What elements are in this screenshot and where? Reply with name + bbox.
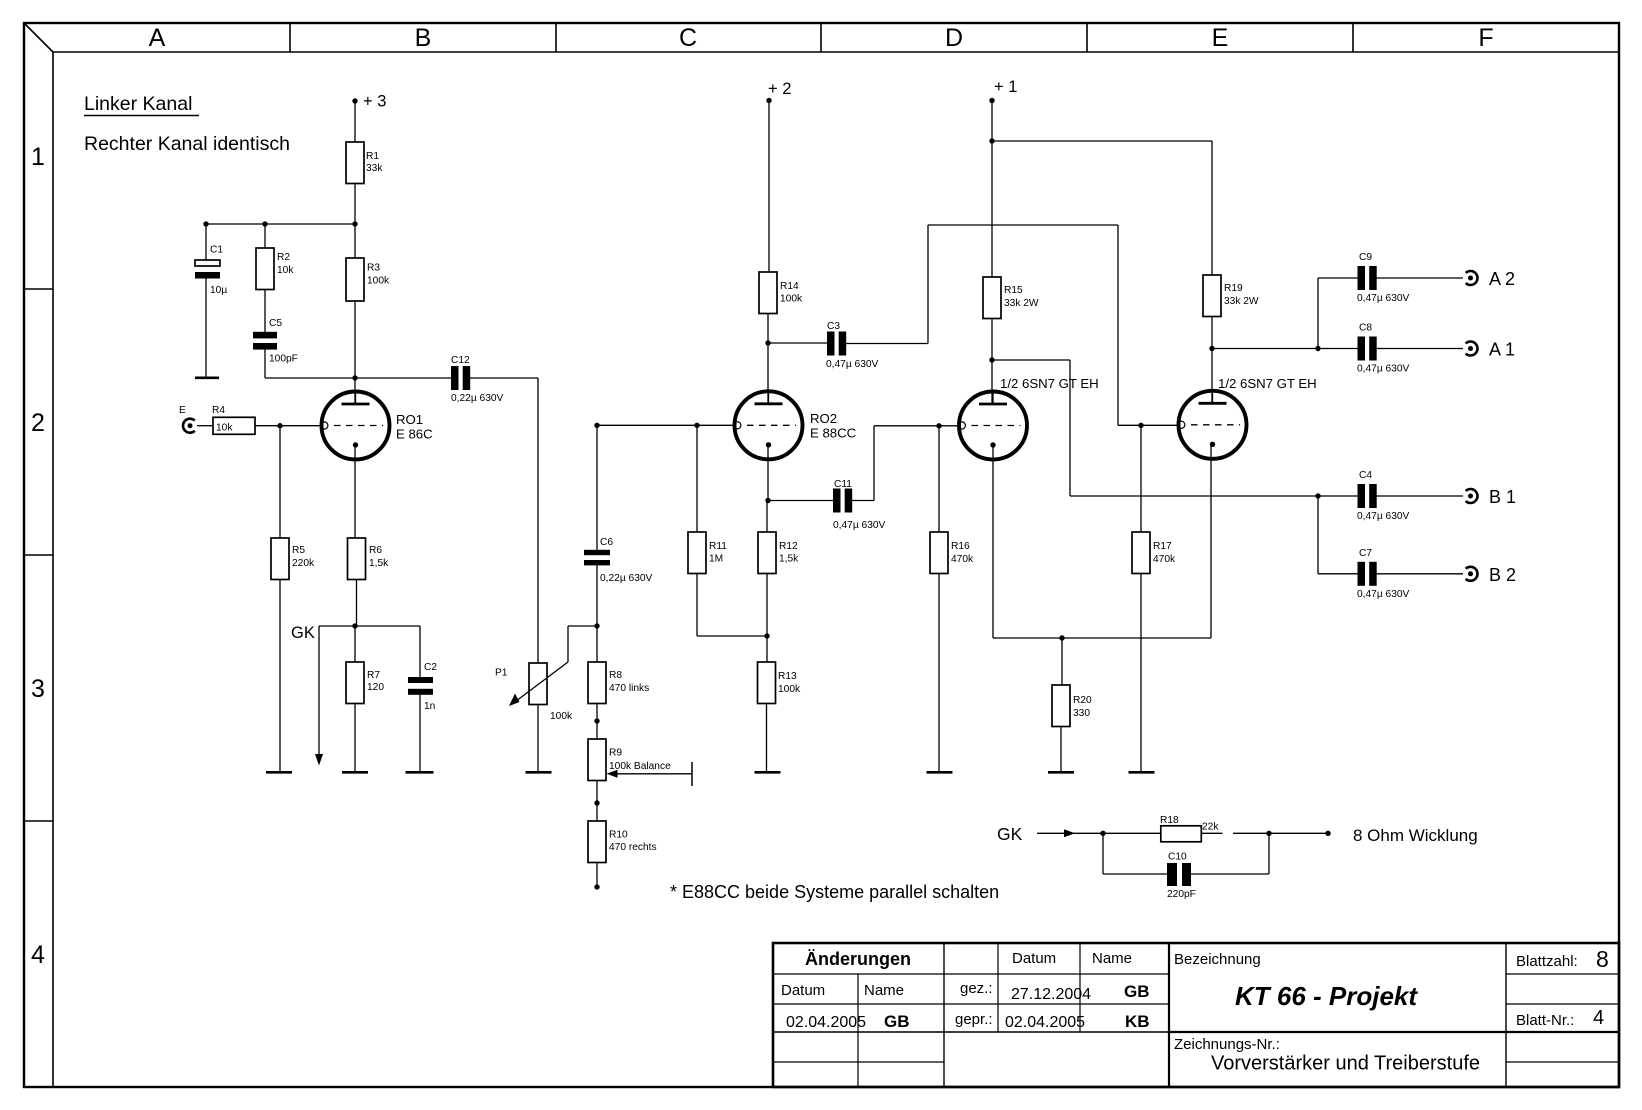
svg-text:100k: 100k bbox=[780, 294, 803, 305]
svg-text:RO2: RO2 bbox=[810, 411, 837, 426]
wire GK node right to C2 bbox=[355, 625, 420, 627]
svg-text:E: E bbox=[1212, 24, 1229, 52]
svg-text:4: 4 bbox=[31, 941, 45, 969]
svg-text:100k: 100k bbox=[367, 276, 390, 287]
wire R7 to ground bbox=[354, 704, 356, 772]
svg-text:33k: 33k bbox=[366, 163, 383, 174]
svg-text:C2: C2 bbox=[424, 662, 437, 673]
svg-text:R16: R16 bbox=[951, 541, 970, 552]
triode V2 half 6SN7 bbox=[1179, 391, 1247, 459]
resistor R6 bbox=[348, 538, 366, 580]
node tube2 anode bbox=[1209, 346, 1214, 351]
title block grid bbox=[773, 943, 1619, 1087]
ground R17 bbox=[1129, 771, 1155, 774]
wire R6 to GK node bbox=[356, 580, 358, 627]
svg-text:33k 2W: 33k 2W bbox=[1224, 296, 1259, 307]
svg-text:Name: Name bbox=[1092, 950, 1132, 967]
svg-text:C12: C12 bbox=[451, 355, 470, 366]
wire C10 right leg bbox=[1268, 833, 1270, 874]
svg-text:10k: 10k bbox=[277, 265, 294, 276]
svg-text:0,47µ 630V: 0,47µ 630V bbox=[1357, 511, 1410, 522]
wire R18 right b bbox=[1233, 832, 1269, 834]
row divider 1 bbox=[24, 288, 53, 290]
ground C2 bbox=[406, 771, 434, 774]
svg-text:R19: R19 bbox=[1224, 283, 1243, 294]
wire R11 top lead bbox=[696, 425, 698, 532]
svg-text:22k: 22k bbox=[1202, 822, 1219, 833]
connector A1 bbox=[1466, 341, 1478, 355]
svg-text:E: E bbox=[179, 405, 186, 416]
ground C1 bbox=[195, 376, 219, 379]
svg-text:8 Ohm Wicklung: 8 Ohm Wicklung bbox=[1353, 826, 1478, 845]
wire to C4 bbox=[1318, 495, 1358, 497]
svg-text:Zeichnungs-Nr.:: Zeichnungs-Nr.: bbox=[1174, 1036, 1280, 1053]
wire down to R19 bbox=[1211, 141, 1213, 275]
capacitor C1 bbox=[195, 260, 220, 266]
capacitor C7 bbox=[1358, 562, 1366, 586]
wire GK node left bbox=[319, 625, 355, 627]
resistor R5 bbox=[271, 538, 289, 580]
svg-text:8: 8 bbox=[1596, 946, 1609, 972]
svg-text:A 1: A 1 bbox=[1489, 340, 1515, 360]
wire anode to C3 bbox=[768, 342, 827, 344]
wire C9 to A2 bbox=[1373, 277, 1463, 279]
svg-text:Datum: Datum bbox=[1012, 950, 1056, 967]
wire V2 cathode down bbox=[1210, 445, 1212, 638]
wire to C7 bbox=[1318, 573, 1358, 575]
wire RO2 cathode lead bbox=[767, 445, 769, 500]
wire E to R4 bbox=[197, 425, 213, 427]
svg-text:C6: C6 bbox=[600, 537, 613, 548]
svg-text:R18: R18 bbox=[1160, 815, 1179, 826]
resistor R1 bbox=[346, 142, 364, 184]
wire B riser down bbox=[1069, 360, 1071, 496]
capacitor C12 bbox=[451, 366, 459, 390]
column divider 4 bbox=[1086, 23, 1088, 52]
node wiper junction bbox=[594, 623, 599, 628]
GK arrow down bbox=[318, 626, 320, 754]
wire R3 to anode net bbox=[354, 301, 356, 378]
wire R8 to R9 bbox=[596, 704, 598, 740]
wire C11 left bbox=[768, 500, 833, 502]
wire down to tube2 grid bbox=[1117, 225, 1119, 425]
wire cathode to R12 bbox=[766, 501, 768, 533]
capacitor C10 bbox=[1167, 863, 1177, 886]
svg-text:R4: R4 bbox=[212, 405, 225, 416]
wire C12 to corner bbox=[467, 377, 538, 379]
svg-text:1n: 1n bbox=[424, 701, 435, 712]
wire R17 top lead bbox=[1140, 425, 1142, 532]
wire C11 riser bbox=[873, 426, 875, 501]
wire C8 to A1 bbox=[1373, 348, 1463, 350]
wire R2 top lead bbox=[264, 224, 266, 248]
svg-text:C1: C1 bbox=[210, 245, 223, 256]
svg-text:R15: R15 bbox=[1004, 285, 1023, 296]
wire C10 right run bbox=[1191, 873, 1269, 875]
svg-text:1M: 1M bbox=[709, 554, 723, 565]
svg-text:Vorverstärker und Treiberstufe: Vorverstärker und Treiberstufe bbox=[1211, 1053, 1480, 1075]
node R18/C10 right bbox=[1266, 831, 1271, 836]
wire B riser down bbox=[1317, 496, 1319, 574]
svg-text:27.12.2004: 27.12.2004 bbox=[1011, 986, 1091, 1003]
border frame corner diagonal bbox=[24, 23, 53, 52]
svg-text:4: 4 bbox=[1593, 1007, 1604, 1029]
wire C6 top lead bbox=[596, 425, 598, 550]
node A junction bbox=[1315, 346, 1320, 351]
svg-text:RO1: RO1 bbox=[396, 412, 423, 427]
wire C7 to B2 bbox=[1373, 573, 1463, 575]
wire RO1 anode into tube bbox=[354, 378, 356, 404]
svg-text:R1: R1 bbox=[366, 151, 379, 162]
potentiometer P1 body bbox=[529, 663, 547, 705]
svg-text:C5: C5 bbox=[269, 318, 282, 329]
potentiometer P1 wiper arrow bbox=[512, 662, 569, 705]
node R16 junction bbox=[936, 423, 941, 428]
wire C1 top lead bbox=[205, 224, 207, 260]
svg-text:R20: R20 bbox=[1073, 695, 1092, 706]
svg-text:D: D bbox=[945, 24, 963, 52]
column divider 3 bbox=[820, 23, 822, 52]
svg-text:470k: 470k bbox=[951, 554, 974, 565]
svg-text:A: A bbox=[149, 24, 166, 52]
capacitor C11 bbox=[833, 489, 841, 513]
svg-text:33k 2W: 33k 2W bbox=[1004, 298, 1039, 309]
node GK/R18 left bbox=[1100, 831, 1105, 836]
resistor R7 bbox=[346, 662, 364, 704]
wire R9 to R10 bbox=[596, 781, 598, 822]
capacitor C3 bbox=[827, 332, 835, 356]
capacitor C8 bbox=[1358, 337, 1366, 361]
wire R12 to node bbox=[766, 574, 768, 663]
terminal node 8 Ohm bbox=[1325, 831, 1330, 836]
capacitor C2 bbox=[408, 677, 433, 683]
node R17 junction bbox=[1138, 423, 1143, 428]
wire to C9 bbox=[1318, 277, 1358, 279]
svg-text:Blatt-Nr.:: Blatt-Nr.: bbox=[1516, 1012, 1574, 1029]
triode RO1 bbox=[322, 392, 390, 460]
capacitor C6 bbox=[584, 550, 610, 555]
wire R14 to anode node bbox=[767, 314, 769, 344]
wire RO1 cathode lead bbox=[354, 445, 356, 538]
svg-text:R6: R6 bbox=[369, 545, 382, 556]
capacitor C4 bbox=[1358, 484, 1366, 508]
wire C5 to anode net bbox=[264, 343, 266, 378]
svg-text:C11: C11 bbox=[834, 479, 852, 490]
column divider 2 bbox=[555, 23, 557, 52]
svg-text:470 links: 470 links bbox=[609, 683, 649, 694]
wire +2 to R14 bbox=[768, 101, 770, 273]
balance arrow terminal bar bbox=[691, 762, 693, 786]
svg-text:gepr.:: gepr.: bbox=[955, 1011, 993, 1028]
wire wiper up bbox=[567, 626, 569, 662]
wire R13 to ground bbox=[766, 704, 768, 772]
svg-text:F: F bbox=[1478, 24, 1493, 52]
ground P1 bbox=[526, 771, 552, 774]
svg-text:470k: 470k bbox=[1153, 554, 1176, 565]
svg-text:GB: GB bbox=[884, 1012, 910, 1031]
node R8/R9 bbox=[594, 718, 599, 723]
ground R20 bbox=[1048, 771, 1074, 774]
svg-text:0,22µ 630V: 0,22µ 630V bbox=[600, 573, 653, 584]
svg-text:C3: C3 bbox=[827, 321, 840, 332]
wire anode right bbox=[992, 359, 1070, 361]
svg-text:0,47µ 630V: 0,47µ 630V bbox=[1357, 364, 1410, 375]
wire anode to A run bbox=[1212, 348, 1318, 350]
svg-text:B: B bbox=[415, 24, 432, 52]
svg-text:C8: C8 bbox=[1359, 323, 1372, 334]
svg-text:R12: R12 bbox=[779, 541, 798, 552]
ground R16 bbox=[927, 771, 953, 774]
svg-text:C7: C7 bbox=[1359, 548, 1372, 559]
svg-text:P1: P1 bbox=[495, 668, 508, 679]
svg-text:R5: R5 bbox=[292, 545, 305, 556]
resistor R9 bbox=[588, 739, 606, 781]
svg-text:Änderungen: Änderungen bbox=[805, 949, 911, 969]
wire anode net horizontal bbox=[265, 377, 451, 379]
svg-text:100k: 100k bbox=[778, 684, 801, 695]
wire RO2 anode into tube bbox=[767, 343, 769, 404]
node +1 branch bbox=[989, 138, 994, 143]
grid wire RO2 bbox=[597, 424, 735, 426]
connector A2 bbox=[1466, 271, 1478, 285]
border frame inner left line bbox=[52, 52, 54, 1087]
svg-text:R10: R10 bbox=[609, 830, 628, 841]
wire C2 top lead bbox=[419, 626, 421, 677]
capacitor C5 bbox=[253, 332, 277, 339]
row divider 3 bbox=[24, 820, 53, 822]
svg-text:C10: C10 bbox=[1168, 852, 1187, 863]
wire C3 riser bbox=[927, 225, 929, 344]
svg-text:Blattzahl:: Blattzahl: bbox=[1516, 953, 1578, 970]
wire C3 right bbox=[843, 343, 928, 345]
wire to end node bbox=[1269, 832, 1328, 834]
svg-text:2: 2 bbox=[31, 409, 45, 437]
svg-text:A 2: A 2 bbox=[1489, 269, 1515, 289]
svg-text:gez.:: gez.: bbox=[960, 980, 993, 997]
svg-text:B 2: B 2 bbox=[1489, 565, 1516, 585]
connector B1 bbox=[1466, 489, 1478, 503]
wire R11 to R13 node bbox=[697, 635, 767, 637]
wire R18 right a bbox=[1201, 832, 1222, 834]
wire C6 to wiper node bbox=[596, 565, 598, 662]
resistor R2 bbox=[256, 248, 274, 290]
node +1 bbox=[989, 98, 994, 103]
svg-text:E 86C: E 86C bbox=[396, 427, 433, 442]
resistor R20 bbox=[1052, 685, 1070, 727]
svg-text:100k: 100k bbox=[550, 711, 573, 722]
resistor R11 bbox=[688, 532, 706, 574]
svg-text:0,22µ 630V: 0,22µ 630V bbox=[451, 393, 504, 404]
resistor R3 bbox=[346, 258, 364, 301]
node junction R1/R3/C1/R2 bbox=[352, 221, 357, 226]
resistor R16 bbox=[930, 532, 948, 574]
wire +1 run to R19 bbox=[992, 140, 1212, 142]
node tube1 anode bbox=[989, 357, 994, 362]
svg-text:02.04.2005: 02.04.2005 bbox=[786, 1014, 866, 1031]
node dot C1 bbox=[203, 221, 208, 226]
wire C1 to ground bbox=[205, 279, 207, 378]
svg-text:E 88CC: E 88CC bbox=[810, 426, 857, 441]
border frame inner top line bbox=[53, 51, 1619, 53]
wire C10 left leg bbox=[1102, 833, 1104, 874]
wire wiper to node bbox=[568, 625, 597, 627]
wire C2 to ground bbox=[419, 695, 421, 771]
svg-text:Linker Kanal: Linker Kanal bbox=[84, 93, 192, 115]
svg-text:0,47µ 630V: 0,47µ 630V bbox=[826, 359, 879, 370]
svg-text:3: 3 bbox=[31, 675, 45, 703]
svg-text:+ 3: + 3 bbox=[363, 93, 386, 111]
svg-text:R11: R11 bbox=[709, 541, 727, 552]
svg-text:1/2 6SN7 GT EH: 1/2 6SN7 GT EH bbox=[1000, 376, 1099, 391]
wire B run bbox=[1070, 495, 1318, 497]
wire to C8 bbox=[1318, 348, 1358, 350]
svg-text:* E88CC beide Systeme parallel: * E88CC beide Systeme parallel schalten bbox=[670, 882, 999, 902]
node R12/R13 bbox=[764, 633, 769, 638]
terminal node below R10 bbox=[594, 884, 599, 889]
wire R4 to grid bbox=[255, 425, 322, 427]
svg-text:B 1: B 1 bbox=[1489, 487, 1516, 507]
svg-text:10µ: 10µ bbox=[210, 285, 227, 296]
svg-text:Datum: Datum bbox=[781, 982, 825, 999]
svg-text:KB: KB bbox=[1125, 1012, 1150, 1031]
wire V1 cathode down bbox=[992, 445, 994, 638]
svg-text:GK: GK bbox=[291, 624, 315, 642]
column divider 5 bbox=[1352, 23, 1354, 52]
svg-text:1,5k: 1,5k bbox=[369, 558, 389, 569]
wire down to P1 bbox=[537, 378, 539, 663]
svg-text:0,47µ 630V: 0,47µ 630V bbox=[833, 520, 886, 531]
wire A riser bbox=[1317, 278, 1319, 349]
svg-text:02.04.2005: 02.04.2005 bbox=[1005, 1014, 1085, 1031]
wire R10 end bbox=[596, 863, 598, 888]
wire R17 to ground bbox=[1140, 574, 1142, 772]
wire R11 down bbox=[696, 574, 698, 637]
wire R16 top lead bbox=[938, 426, 940, 532]
node C6 top bbox=[594, 423, 599, 428]
svg-text:C4: C4 bbox=[1359, 470, 1372, 481]
balance arrow into R9 bbox=[614, 773, 692, 775]
connector B2 bbox=[1466, 567, 1478, 581]
wire to R18 bbox=[1103, 832, 1161, 834]
svg-text:10k: 10k bbox=[216, 423, 233, 434]
column divider 1 bbox=[289, 23, 291, 52]
svg-text:120: 120 bbox=[367, 682, 384, 693]
svg-text:1/2 6SN7 GT EH: 1/2 6SN7 GT EH bbox=[1218, 376, 1317, 391]
svg-text:0,47µ 630V: 0,47µ 630V bbox=[1357, 293, 1410, 304]
wire C11 right bbox=[849, 500, 874, 502]
node anode RO1 bbox=[352, 375, 357, 380]
svg-text:R3: R3 bbox=[367, 263, 380, 274]
svg-text:+ 1: + 1 bbox=[994, 78, 1017, 96]
svg-text:470 rechts: 470 rechts bbox=[609, 842, 657, 853]
svg-text:Bezeichnung: Bezeichnung bbox=[1174, 951, 1261, 968]
svg-text:Name: Name bbox=[864, 982, 904, 999]
wire top run to tube2 bbox=[928, 224, 1118, 226]
ground R5 bbox=[266, 771, 292, 774]
svg-text:100k Balance: 100k Balance bbox=[609, 761, 671, 772]
wire cathode bus bbox=[993, 637, 1211, 639]
svg-text:R8: R8 bbox=[609, 670, 622, 681]
node RO2 anode bbox=[765, 340, 770, 345]
svg-text:R14: R14 bbox=[780, 281, 799, 292]
svg-text:C9: C9 bbox=[1359, 252, 1372, 263]
resistor R18 bbox=[1161, 826, 1202, 842]
wire R1 to node bbox=[354, 184, 356, 225]
node R4/R5 junction bbox=[277, 423, 282, 428]
svg-text:100pF: 100pF bbox=[269, 354, 298, 365]
node R11 top bbox=[694, 423, 699, 428]
svg-text:0,47µ 630V: 0,47µ 630V bbox=[1357, 589, 1410, 600]
node RO2 cathode/C11 bbox=[765, 498, 770, 503]
resistor R19 bbox=[1203, 275, 1221, 317]
wire P1 to ground bbox=[537, 705, 539, 772]
node B junction bbox=[1315, 493, 1320, 498]
svg-text:1,5k: 1,5k bbox=[779, 554, 799, 565]
svg-text:KT 66 - Projekt: KT 66 - Projekt bbox=[1235, 981, 1418, 1011]
svg-text:Rechter Kanal identisch: Rechter Kanal identisch bbox=[84, 133, 290, 155]
svg-text:R7: R7 bbox=[367, 670, 380, 681]
node +2 bbox=[766, 98, 771, 103]
wire R5 to ground bbox=[279, 580, 281, 772]
wire R19 to anode node bbox=[1211, 317, 1213, 405]
svg-text:GK: GK bbox=[997, 824, 1023, 844]
wire R16 to ground bbox=[938, 574, 940, 772]
wire R20 to ground bbox=[1060, 727, 1062, 772]
ground R7 bbox=[342, 771, 368, 774]
capacitor C9 bbox=[1358, 266, 1366, 290]
resistor R17 bbox=[1132, 532, 1150, 574]
connector E bbox=[183, 419, 195, 433]
resistor R10 bbox=[588, 821, 606, 863]
svg-text:220pF: 220pF bbox=[1167, 889, 1196, 900]
resistor R8 bbox=[588, 662, 606, 704]
wire R15 to anode node bbox=[991, 319, 993, 405]
wire C10 left run bbox=[1103, 873, 1167, 875]
wire R2 to C5 bbox=[264, 290, 266, 333]
svg-text:GB: GB bbox=[1124, 982, 1150, 1001]
wire to tube1 grid bbox=[874, 425, 960, 427]
svg-text:R2: R2 bbox=[277, 252, 290, 263]
node dot R2 bbox=[262, 221, 267, 226]
wire down to R5 bbox=[279, 426, 281, 538]
svg-text:330: 330 bbox=[1073, 708, 1090, 719]
svg-text:R17: R17 bbox=[1153, 541, 1172, 552]
resistor R4 bbox=[213, 417, 255, 434]
wire R3 top lead bbox=[354, 224, 356, 258]
ground R13 bbox=[755, 771, 781, 774]
wire +1 down bbox=[991, 101, 993, 278]
node GK junction bbox=[352, 623, 357, 628]
wire R20 top lead bbox=[1061, 638, 1063, 685]
node R9/R10 bbox=[594, 800, 599, 805]
svg-text:C: C bbox=[679, 24, 697, 52]
node +3 bbox=[352, 98, 357, 103]
svg-text:1: 1 bbox=[31, 143, 45, 171]
resistor R13 bbox=[758, 662, 776, 704]
svg-text:R9: R9 bbox=[609, 748, 622, 759]
resistor R15 bbox=[983, 277, 1001, 319]
wire GK lead bbox=[1037, 832, 1103, 834]
wire into tube2 grid bbox=[1118, 424, 1179, 426]
node R20 junction bbox=[1059, 635, 1064, 640]
svg-text:220k: 220k bbox=[292, 558, 315, 569]
wire +3 to R1 bbox=[354, 101, 356, 142]
wire C4 to B1 bbox=[1373, 495, 1463, 497]
svg-text:R13: R13 bbox=[778, 671, 797, 682]
row divider 2 bbox=[24, 554, 53, 556]
triode V1 half 6SN7 bbox=[959, 392, 1027, 460]
resistor R12 bbox=[758, 532, 776, 574]
